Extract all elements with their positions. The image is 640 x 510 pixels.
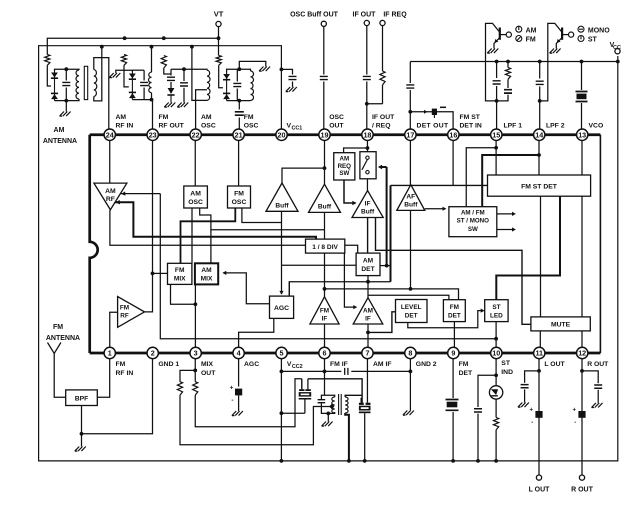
capacitor LPF1 branch [507, 79, 509, 88]
switch SW1 IF REQ [360, 152, 376, 179]
wire AM MIX out to pin3 [194, 284, 196, 347]
wire IF Buff out to AM DET [367, 218, 369, 254]
svg-text:RF IN: RF IN [116, 123, 134, 130]
ground L OUT cap [518, 403, 529, 408]
wire pin3 branch left [180, 370, 195, 381]
pin 18 [362, 129, 373, 140]
wire resistor to rail [495, 430, 497, 461]
ground tank4 top [259, 67, 270, 72]
IC body outline [90, 135, 98, 353]
pin 22 [190, 129, 201, 140]
junction pin10 branch [494, 373, 498, 377]
capacitor FM OSC series to pin21 [238, 101, 240, 110]
svg-text:AM: AM [201, 114, 212, 121]
wire pin11 branch to cap [525, 371, 539, 383]
junction pin23 FM MIX branch [151, 272, 155, 276]
wire FM DET to pin9 [453, 322, 455, 347]
svg-text:FM: FM [234, 190, 244, 197]
junction secondary rail [347, 459, 351, 463]
svg-text:OSC: OSC [232, 199, 247, 206]
wire pin11 L OUT line [538, 359, 540, 476]
wire AGC to AM MIX [223, 273, 269, 304]
pin 1 [104, 347, 115, 358]
wire AM IF apex branch to FM DET [368, 295, 449, 299]
svg-text:AF: AF [406, 194, 415, 201]
junction ST IND wire pin10 line [494, 337, 498, 341]
svg-text:R OUT: R OUT [571, 487, 594, 494]
wire IF Buff out2 to MUTE [376, 218, 531, 325]
junction thick at AM DET out [385, 264, 389, 268]
pin 17 [405, 129, 416, 140]
junction pin15 SW branch [494, 146, 498, 150]
wire pin23 to FM RF amp and FM MIX [145, 140, 153, 312]
wire mix out right to ceramic filter [195, 379, 302, 427]
svg-text:VCO: VCO [589, 123, 604, 130]
capacitor electrolytic L OUT [535, 411, 542, 418]
svg-text:AM: AM [105, 188, 116, 195]
wire VT to tank4 varactor mid [219, 65, 223, 88]
resistor VT tank4 [216, 56, 221, 66]
ceramic resonator VCO [575, 90, 589, 103]
wire pin8 to ground [409, 359, 411, 411]
svg-text:IF REQ: IF REQ [383, 12, 407, 19]
svg-text:GND 1: GND 1 [158, 361, 179, 368]
wire pin6 to quad tank [324, 359, 326, 396]
pin 19 [319, 129, 330, 140]
svg-text:-: - [231, 397, 233, 404]
wire pin4 to cap [238, 359, 240, 387]
IF OUT terminal [364, 20, 369, 25]
inductor tank2 [148, 72, 151, 93]
pin 13 [577, 129, 588, 140]
pin 16 [448, 129, 459, 140]
block FM ST DET [488, 175, 591, 196]
svg-text:2: 2 [151, 349, 155, 358]
svg-text:RF OUT: RF OUT [159, 123, 185, 130]
wire tank1 bottom node [55, 99, 80, 101]
svg-text:DET: DET [448, 312, 461, 319]
wire pin3 node [194, 359, 196, 382]
svg-text:AM IF: AM IF [373, 361, 392, 368]
junction pin5 filter branch [280, 411, 284, 415]
inductor tank1 secondary [94, 70, 97, 97]
svg-text:FM: FM [450, 304, 459, 311]
wire pin9 to discriminator [452, 359, 454, 461]
junction AM filter rail [363, 459, 367, 463]
svg-text:5: 5 [280, 349, 284, 358]
wire tank1 to ground [65, 101, 67, 112]
svg-text:7: 7 [365, 349, 369, 358]
pin 24 [104, 129, 115, 140]
capacitor L OUT branch [521, 385, 529, 388]
junction BPF ground [80, 432, 84, 436]
core IF transformer [339, 394, 342, 415]
wire VCC1 branch to bypass cap [281, 69, 292, 74]
block AM DET [356, 253, 380, 276]
wire tank2 coil to rail [151, 47, 153, 72]
svg-text:VT: VT [214, 10, 224, 19]
wire tank3 varactor branch [164, 68, 171, 74]
capacitor series IF coupling [341, 368, 351, 375]
svg-text:MIX: MIX [201, 275, 213, 282]
wire pin10 branch to cap [478, 375, 496, 407]
wire IF node to pin18 [366, 104, 368, 130]
pin 4 [233, 347, 244, 358]
block AGC [270, 296, 294, 318]
wire LEVEL DET to ST LED [408, 311, 484, 328]
junction tank1 bottom [64, 99, 68, 103]
svg-text:1: 1 [108, 349, 112, 358]
block BPF [66, 390, 98, 406]
svg-text:-: - [574, 420, 576, 426]
svg-text:DET: DET [405, 312, 418, 319]
capacitor quad tank [318, 400, 326, 403]
svg-text:IF: IF [322, 316, 328, 323]
wire pin14 into FM ST DET [538, 140, 540, 175]
svg-text:LED: LED [490, 312, 503, 319]
wire pin19 to Buff2 apex [324, 140, 326, 184]
wire Buff2 base down to 1/8 DIV [324, 212, 326, 239]
wire AM DET bottom to AM IF apex [367, 276, 369, 298]
wire BPF ground and GND1 [82, 359, 153, 434]
svg-text:AGC: AGC [244, 361, 259, 368]
ground tank3 varactor [164, 103, 175, 108]
wire pin18 node to switch [366, 140, 368, 156]
svg-text:8: 8 [408, 349, 412, 358]
wire FM ST DET to MUTE via pin14 column [540, 196, 542, 317]
capacitor IF OUT series [362, 75, 372, 82]
svg-text:RF: RF [120, 313, 129, 320]
junction VCC1 bypass [280, 68, 284, 72]
svg-text:FM: FM [320, 308, 329, 315]
svg-text:ST: ST [492, 304, 500, 311]
junction MIX outputs [194, 302, 198, 306]
ground tank3 cap [177, 103, 188, 108]
wire pin1 to FM RF input [110, 312, 118, 347]
svg-text:L OUT: L OUT [544, 361, 565, 368]
svg-text:IND: IND [501, 369, 513, 376]
block AM OSC [184, 186, 208, 208]
inductor IF transformer secondary [345, 397, 348, 413]
junction tank4 top [237, 67, 241, 71]
svg-text:19: 19 [321, 130, 329, 139]
wire FM IF base to pin6 [324, 324, 326, 347]
capacitor electrolytic R OUT [578, 411, 585, 418]
wire pin7 to AM filter [366, 359, 368, 403]
wire Q2 bracket to LPF2 node [540, 62, 548, 101]
svg-text:+: + [572, 408, 576, 414]
svg-text:DET OUT: DET OUT [417, 123, 449, 130]
junction pin3 branch [193, 369, 197, 373]
op-amp Buff1 [266, 183, 298, 211]
ceramic filter CF1 mixer out [299, 389, 304, 391]
block ST LED [485, 300, 508, 322]
svg-text:CC: CC [613, 45, 621, 51]
L OUT terminal [536, 475, 541, 480]
junction VT at vertical [217, 36, 221, 40]
wire AM DET right output [380, 265, 391, 267]
junction LPF1 lower [495, 99, 499, 103]
svg-text:11: 11 [535, 349, 543, 358]
ground GND2 [403, 411, 414, 416]
junction DET OUT node [408, 110, 412, 114]
junction pin14 SW branch [537, 153, 541, 157]
junction FM IF apex node [323, 287, 327, 291]
wire ceramic filter out to IF transformer [308, 379, 362, 403]
pin 9 [448, 347, 459, 358]
wire tank4 top to ground [239, 61, 265, 69]
icon switch position AM [516, 26, 522, 32]
svg-text:OUT: OUT [201, 370, 216, 377]
svg-text:AM: AM [190, 190, 201, 197]
wire tank1 secondary loop [94, 58, 109, 130]
icon switch position FM [516, 36, 522, 42]
wire AM OSC out right to AM MIX bus [200, 208, 325, 230]
svg-text:FM: FM [116, 361, 126, 368]
junction quad tank ground tap [326, 412, 330, 416]
svg-text:AM: AM [363, 257, 374, 264]
wire ceramic filter CF1 leads [301, 379, 303, 389]
block 1/8 DIV [306, 239, 345, 253]
resistor mix out left [177, 382, 182, 395]
svg-text:IF: IF [365, 201, 371, 208]
svg-text:FM: FM [459, 361, 469, 368]
svg-text:Buff: Buff [404, 202, 418, 209]
wire LPF2 node [539, 62, 541, 130]
svg-text:R OUT: R OUT [587, 361, 609, 368]
wire thick vertical 2 [390, 185, 392, 281]
svg-text:ST: ST [501, 360, 511, 367]
VT terminal [216, 21, 221, 26]
svg-text:DET: DET [361, 266, 374, 273]
capacitor tank3 series [170, 74, 172, 76]
svg-text:MUTE: MUTE [551, 322, 571, 329]
varactor D4 tank4 [226, 73, 228, 101]
junction AM IF level branch [366, 331, 370, 335]
svg-text:IF OUT: IF OUT [353, 12, 377, 19]
IF REQ terminal [380, 20, 385, 25]
icon switch position ST [578, 36, 584, 42]
svg-text:1 / 8 DIV: 1 / 8 DIV [312, 244, 338, 251]
wire BPF to pin1 [97, 359, 109, 398]
wire pin5 to bottom rail [280, 359, 282, 461]
wire pin15 into FM ST DET [495, 140, 497, 175]
svg-text:OSC: OSC [201, 123, 216, 130]
ground VCC1 bypass [286, 87, 297, 92]
wire AM DET bottom node [289, 282, 390, 296]
junction VT bus tank2 [123, 36, 127, 40]
junction pin18 branch [366, 146, 370, 150]
wire tank3 top node [171, 69, 207, 70]
svg-text:RF IN: RF IN [116, 370, 134, 377]
wire pin24 to AM RF amp [109, 140, 111, 183]
wire thick2 to FM ST DET left [391, 184, 488, 186]
pin 10 [491, 347, 502, 358]
svg-text:6: 6 [323, 349, 327, 358]
op-amp AF Buff [397, 185, 425, 211]
resistor VT tank2 [121, 55, 126, 66]
wire VT bus [218, 27, 220, 56]
svg-text:15: 15 [492, 130, 500, 139]
wire AM IF out to LEVEL DET [367, 324, 369, 347]
block LEVEL DET [396, 300, 428, 323]
svg-text:FM IF: FM IF [330, 361, 348, 368]
svg-text:20: 20 [278, 130, 286, 139]
svg-text:IF: IF [365, 316, 371, 323]
junction pin12 branch [580, 369, 584, 373]
wire OSC Buff OUT to pin19 [323, 26, 325, 129]
svg-text:+: + [529, 408, 533, 414]
wire tank4 top node [227, 69, 251, 72]
R OUT terminal [579, 475, 584, 480]
svg-text:AM: AM [201, 267, 212, 274]
wire AM filter to rail [364, 413, 366, 461]
op-amp AM RF [94, 183, 127, 210]
varactor D1 tank1 [54, 71, 56, 101]
pin 15 [491, 129, 502, 140]
svg-text:SW: SW [339, 170, 349, 177]
wire AGC top2 [288, 282, 290, 296]
inductor quad tank primary [332, 397, 335, 413]
svg-text:LPF 2: LPF 2 [546, 123, 565, 130]
block FM DET [443, 300, 465, 322]
svg-text:-: - [531, 420, 533, 426]
resistor IF REQ [378, 71, 388, 85]
wire IF transformer secondary bottom to rail [345, 413, 349, 461]
svg-text:10: 10 [492, 349, 500, 358]
svg-text:FM: FM [175, 267, 185, 274]
wire Q1 emitter bracket to LPF1 node [486, 62, 497, 101]
svg-text:L OUT: L OUT [529, 487, 551, 494]
wire thick feedback to switch arrow [386, 167, 388, 266]
ceramic discriminator FM DET [445, 398, 460, 412]
wire FM OSC out right to Buff1 [242, 208, 282, 223]
wire FM ST DET to ST LED thick [496, 196, 560, 301]
capacitor tank2 [143, 70, 145, 80]
svg-text:3: 3 [194, 349, 198, 358]
resistor ST IND [494, 418, 499, 430]
svg-text:OSC: OSC [329, 114, 344, 121]
wire SW box to pin15 [466, 148, 496, 207]
junction RC branch bus [506, 60, 510, 64]
ground AGC cap [232, 411, 243, 416]
svg-text:BPF: BPF [75, 396, 89, 403]
svg-text:IF OUT: IF OUT [372, 114, 395, 121]
wire pin13 into FM ST DET [581, 140, 583, 175]
svg-text:FM: FM [120, 305, 129, 312]
junction LPF1 bus [495, 60, 499, 64]
wire pin17 to AF Buff [409, 140, 411, 185]
svg-text:MONO: MONO [588, 27, 610, 34]
junction tank3 rail [190, 45, 194, 49]
svg-text:4: 4 [237, 349, 241, 358]
svg-text:LEVEL: LEVEL [401, 304, 422, 311]
block MUTE [531, 317, 590, 331]
svg-text:23: 23 [149, 130, 157, 139]
wire pin12 branch to cap [582, 371, 598, 383]
capacitor OSC Buff OUT series [319, 75, 329, 82]
wire ST IND long run [160, 194, 496, 339]
ground tank1 [60, 112, 71, 117]
core AM bar antenna [84, 66, 87, 99]
wire CF2 left lead thick [360, 399, 363, 403]
svg-text:FM: FM [53, 324, 63, 331]
wire LPF1 node [496, 62, 498, 130]
junction tank2 bottom [150, 98, 154, 102]
svg-text:MIX: MIX [174, 275, 186, 282]
svg-text:RF: RF [106, 196, 115, 203]
pin 2 [147, 347, 158, 358]
wire ST LED to pin10 [495, 322, 497, 347]
svg-text:13: 13 [578, 130, 586, 139]
svg-text:SW: SW [468, 226, 478, 233]
varactor D2 tank2 [131, 72, 133, 100]
op-amp IF Buff [352, 191, 383, 218]
wire 1/8 DIV to AM DET [344, 253, 356, 307]
quad tank bracket [321, 395, 334, 399]
wire Buff1 base to AGC [281, 211, 283, 294]
svg-text:ANTENNA: ANTENNA [46, 335, 80, 342]
resistor VT tank3 [161, 56, 166, 69]
svg-text:AM: AM [339, 156, 349, 163]
wire pin16 to FM ST DET [452, 140, 454, 185]
wire VCO node [581, 62, 583, 130]
capacitor LPF1 [492, 78, 502, 86]
junction pin11 branch [537, 369, 541, 373]
pin 12 [577, 347, 588, 358]
op-amp FM RF [118, 297, 145, 328]
svg-text:AM: AM [54, 127, 65, 134]
junction pin5 rail [280, 459, 284, 463]
svg-text:FM: FM [244, 114, 254, 121]
wire FM OSC out left to FM MIX thick [181, 208, 236, 263]
svg-text:17: 17 [406, 130, 414, 139]
svg-text:DET: DET [459, 370, 473, 377]
pin 7 [362, 347, 373, 358]
op-amp AM IF [353, 298, 383, 324]
wire AF Buff to SW box arrow [425, 208, 446, 210]
svg-text:22: 22 [192, 130, 200, 139]
capacitor tank3 parallel [183, 69, 185, 81]
junction tank2 rail [150, 45, 154, 49]
svg-text:18: 18 [363, 130, 371, 139]
junction tank3 top [182, 67, 186, 71]
wire 1/8 DIV to FM IF apex node [324, 253, 326, 297]
capacitor electrolytic AGC [235, 389, 242, 396]
op-amp Buff2 [309, 184, 341, 212]
wire tank1 top node [55, 69, 80, 71]
wire AM RF apex to AM DET via long run [110, 210, 358, 253]
wire IF OUT down [367, 26, 383, 104]
pin 3 [190, 347, 201, 358]
block AM MIX [195, 263, 218, 284]
tap diamond quad tank [329, 404, 334, 410]
svg-text:/ REQ: / REQ [372, 123, 391, 130]
block FM OSC [228, 186, 251, 208]
junction coupling pin8 [409, 370, 413, 374]
wire MUTE to pin12 [581, 331, 583, 347]
junction AF Buff output node [409, 287, 413, 291]
pin 14 [534, 129, 545, 140]
wire switch to IF Buff apex [366, 175, 368, 191]
inductor tank4 [251, 71, 254, 100]
capacitor VCC1 bypass [289, 76, 297, 79]
svg-text:DET IN: DET IN [460, 123, 482, 130]
wire AM OSC out left to FM MIX [191, 208, 193, 263]
antenna FM [48, 343, 61, 354]
junction pin5 top branch [280, 370, 284, 374]
transistor Q1 AM/FM switch [486, 23, 500, 61]
